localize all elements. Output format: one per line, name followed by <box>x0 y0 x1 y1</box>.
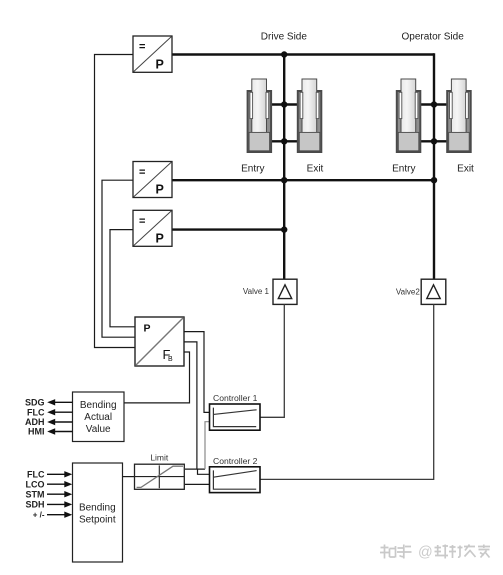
watermark zhihu <box>380 545 412 559</box>
svg-text:Controller 2: Controller 2 <box>213 456 258 466</box>
wire P/FB output 1 to controller 1 <box>184 332 210 413</box>
wire hydraulic line P3 <box>172 228 284 230</box>
svg-text:B: B <box>168 356 173 363</box>
svg-text:=: = <box>139 167 145 179</box>
controller 1 block <box>210 404 261 430</box>
svg-text:P: P <box>144 323 151 335</box>
cylinder drive entry <box>248 79 272 152</box>
valve V2 <box>421 279 446 304</box>
label Entry drive <box>241 163 264 174</box>
svg-text:Limit: Limit <box>150 453 169 463</box>
svg-text:=: = <box>139 215 145 227</box>
svg-text:P: P <box>156 232 164 246</box>
wire operator-side manifold vertical <box>433 53 435 279</box>
label Limit <box>150 453 169 463</box>
wire operator cylinder lower ports <box>421 140 448 142</box>
junction dots drive line <box>281 51 287 233</box>
transducer block 2 (=/P) <box>133 162 172 198</box>
BS input arrow LCO <box>26 479 73 489</box>
svg-text:@: @ <box>418 545 433 561</box>
svg-text:FLC: FLC <box>27 470 45 480</box>
svg-text:Operator Side: Operator Side <box>402 31 465 42</box>
svg-text:SDG: SDG <box>25 398 45 408</box>
label Operator Side <box>402 31 465 42</box>
svg-text:Bending: Bending <box>79 502 116 513</box>
wire drive-side manifold vertical <box>283 55 285 280</box>
svg-text:Entry: Entry <box>392 163 415 174</box>
BS input arrow STM <box>26 489 73 499</box>
label Controller 1 <box>213 393 258 403</box>
cylinder operator entry <box>397 79 421 152</box>
wire bending setpoint to limit <box>123 476 136 478</box>
wire hydraulic line P2 <box>172 179 434 181</box>
valve V1 <box>273 279 297 304</box>
wire drive cylinder lower ports <box>271 140 298 142</box>
wire sensor 2 signal <box>102 180 135 337</box>
BAV output arrow FLC <box>27 407 73 417</box>
block Bending Setpoint <box>73 463 123 562</box>
cylinder operator exit <box>447 79 471 152</box>
label Valve 1 <box>243 287 270 296</box>
watermark characters <box>435 545 491 559</box>
BS input arrow +/- <box>33 511 73 520</box>
limiter block <box>135 464 185 489</box>
svg-text:HMI: HMI <box>28 427 45 437</box>
svg-text:=: = <box>139 41 145 53</box>
label Exit operator <box>457 163 474 174</box>
label Controller 2 <box>213 456 258 466</box>
wire limit to controller 2 lower input <box>185 483 210 485</box>
watermark @ sign <box>418 545 433 561</box>
wire valve 2 to controller 2 output <box>260 304 434 479</box>
svg-text:Exit: Exit <box>457 163 474 174</box>
wire valve 1 to controller 1 output <box>260 304 284 417</box>
wire junction horizontal at limit output level <box>185 468 205 470</box>
wire P/FB output 3 to bending actual value <box>124 352 190 403</box>
svg-text:Value: Value <box>86 424 111 435</box>
svg-text:Bending: Bending <box>80 400 117 411</box>
svg-text:Exit: Exit <box>307 163 324 174</box>
svg-text:Valve2: Valve2 <box>396 288 420 297</box>
transducer block 3 (=/P) <box>133 210 172 246</box>
cylinder drive exit <box>298 79 322 152</box>
wire hydraulic top line P1 <box>172 53 434 55</box>
svg-text:Actual: Actual <box>84 412 112 423</box>
svg-text:ADH: ADH <box>25 417 45 427</box>
svg-text:LCO: LCO <box>26 479 45 489</box>
BAV output arrow ADH <box>25 417 73 427</box>
converter block P/FB <box>135 317 184 366</box>
label Valve2 <box>396 288 420 297</box>
BS input arrow FLC <box>27 470 72 480</box>
label Entry operator <box>392 163 415 174</box>
controller 2 block <box>210 467 261 493</box>
BAV output arrow HMI <box>28 427 73 437</box>
wire jog down to controller 2 input <box>198 469 210 474</box>
wire sensor 1 signal <box>95 55 136 348</box>
svg-text:FLC: FLC <box>27 407 45 417</box>
svg-text:STM: STM <box>26 489 45 499</box>
svg-text:Controller 1: Controller 1 <box>213 393 258 403</box>
junction dots operator line <box>431 101 437 183</box>
wire sensor 3 signal <box>110 230 135 327</box>
wire operator cylinder upper ports <box>421 103 448 105</box>
svg-text:Setpoint: Setpoint <box>79 515 116 526</box>
svg-text:P: P <box>156 57 164 71</box>
svg-text:Entry: Entry <box>241 163 264 174</box>
BS input arrow SDH <box>25 500 72 510</box>
transducer block 1 (=/P) <box>133 36 172 72</box>
BAV output arrow SDG <box>25 398 73 408</box>
wire P/FB output 2 to junction/limit <box>184 342 197 469</box>
svg-text:+ /-: + /- <box>33 511 45 520</box>
svg-text:Drive Side: Drive Side <box>261 31 308 42</box>
wire gray feedback controller 1 <box>205 422 210 469</box>
label Drive Side <box>261 31 308 42</box>
block Bending Actual Value <box>73 392 125 442</box>
svg-text:P: P <box>156 183 164 197</box>
wire drive cylinder upper ports <box>271 103 298 105</box>
svg-text:SDH: SDH <box>25 500 44 510</box>
svg-text:Valve 1: Valve 1 <box>243 287 270 296</box>
label Exit drive <box>307 163 324 174</box>
